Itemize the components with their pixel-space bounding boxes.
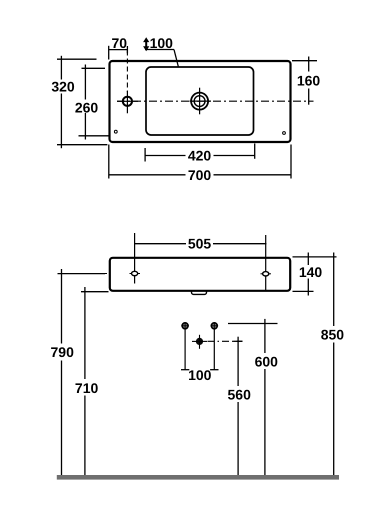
svg-text:100: 100	[188, 367, 212, 383]
dimension 560	[208, 340, 243, 342]
svg-text:505: 505	[188, 236, 212, 252]
svg-text:790: 790	[51, 344, 75, 360]
waste outlet tab	[192, 288, 207, 294]
dimension 505	[135, 243, 186, 245]
dimension 70	[108, 46, 110, 60]
svg-text:710: 710	[75, 380, 99, 396]
dimension 260	[82, 67, 106, 69]
svg-text:420: 420	[188, 147, 212, 163]
centerline stub left of front view	[88, 273, 107, 275]
outer basin rim outline	[110, 61, 291, 142]
dimension 100 (tap centres)	[184, 330, 186, 370]
dimension 710	[81, 291, 109, 293]
tap hole	[123, 97, 132, 106]
dimension 600	[228, 323, 278, 325]
svg-text:560: 560	[228, 387, 252, 403]
svg-text:320: 320	[51, 79, 75, 95]
fixing hole left (plan)	[114, 130, 117, 133]
svg-text:850: 850	[321, 326, 345, 342]
horizontal centerline (dash-dot)	[117, 100, 314, 102]
svg-text:160: 160	[297, 72, 321, 88]
svg-text:600: 600	[255, 354, 279, 370]
svg-text:700: 700	[188, 167, 212, 183]
front outline	[110, 258, 290, 291]
floor line	[57, 475, 339, 480]
vertical centerline above tap hole (dashed)	[126, 51, 128, 93]
svg-text:70: 70	[112, 35, 128, 51]
inner bowl outline	[146, 67, 254, 135]
dimension 790	[58, 273, 106, 275]
dimension 320	[57, 58, 97, 60]
svg-text:140: 140	[299, 264, 323, 280]
tap hole left (front)	[182, 323, 188, 329]
dimension 140	[293, 256, 337, 258]
tap hole right (front)	[211, 323, 217, 329]
supply centre point	[196, 338, 203, 345]
svg-text:260: 260	[75, 99, 99, 115]
dimension 420	[144, 148, 146, 162]
left fixing hole (front)	[134, 233, 136, 284]
fixing hole right (plan)	[283, 132, 286, 135]
diameter note 100 with leader	[143, 37, 149, 51]
svg-text:100: 100	[150, 35, 174, 51]
dimension 700	[108, 145, 110, 179]
dimension 850	[333, 253, 335, 327]
dimension 160	[292, 60, 317, 62]
waste hole	[191, 93, 208, 110]
right fixing hole (front)	[265, 235, 267, 291]
